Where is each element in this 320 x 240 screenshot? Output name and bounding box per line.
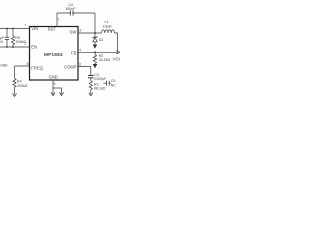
svg-text:L1: L1 — [105, 20, 109, 24]
svg-text:FREQ: FREQ — [31, 66, 43, 71]
resistor R2 — [93, 52, 96, 64]
svg-text:8: 8 — [27, 62, 29, 66]
svg-text:SW: SW — [70, 29, 77, 34]
inductor L1 — [102, 30, 115, 33]
svg-text:2200pF: 2200pF — [94, 77, 107, 81]
wire GND pin — [52, 80, 54, 94]
capacitor C3 — [88, 76, 94, 81]
wire COMP — [78, 67, 91, 76]
svg-text:100kΩ: 100kΩ — [15, 40, 26, 44]
svg-text:VOUT: VOUT — [113, 57, 120, 62]
node R5-VIN junction — [12, 28, 14, 30]
svg-text:D1: D1 — [99, 38, 104, 42]
svg-text:EN: EN — [31, 45, 37, 50]
svg-text:50V: 50V — [0, 40, 4, 44]
svg-text:100nF: 100nF — [65, 7, 76, 11]
svg-text:7: 7 — [24, 23, 26, 27]
resistor R5 — [11, 29, 14, 48]
svg-text:VIN: VIN — [31, 26, 38, 31]
svg-text:10µH: 10µH — [103, 25, 112, 29]
ground (R4) — [13, 93, 17, 96]
wire VIN rail — [0, 28, 30, 30]
ground (D1) — [93, 45, 96, 48]
svg-text:BST: BST — [48, 26, 57, 31]
svg-text:GND: GND — [0, 63, 8, 67]
node SW junction — [94, 32, 96, 34]
ground (R2) — [93, 64, 96, 67]
svg-text:6: 6 — [79, 62, 81, 66]
wire BST cap to SW node — [94, 13, 96, 33]
wire FREQ — [15, 66, 30, 79]
ground (IC GND b) — [60, 92, 64, 95]
wire BST — [57, 13, 70, 27]
node FB junction — [94, 51, 96, 53]
svg-text:68.1kΩ: 68.1kΩ — [94, 87, 106, 91]
diode D1 — [93, 33, 97, 45]
node VOUT arrow — [116, 51, 119, 54]
resistor R4 — [13, 79, 16, 95]
svg-text:1: 1 — [58, 18, 60, 22]
svg-text:200kΩ: 200kΩ — [17, 84, 28, 88]
svg-text:COMP: COMP — [64, 65, 77, 70]
capacitor C5 — [103, 81, 111, 86]
node C1-VIN junction — [6, 28, 8, 30]
svg-text:4: 4 — [79, 48, 81, 52]
svg-text:3: 3 — [79, 29, 81, 33]
svg-text:GND: GND — [49, 74, 58, 79]
svg-text:5: 5 — [54, 82, 56, 86]
svg-text:NC: NC — [111, 83, 117, 87]
node C1-EN junction — [6, 46, 8, 48]
wire FB / VOUT — [78, 51, 118, 53]
svg-text:43.2kΩ: 43.2kΩ — [99, 58, 111, 62]
capacitor C1 — [5, 29, 9, 48]
wire SW — [78, 32, 102, 34]
svg-text:FB: FB — [71, 50, 77, 55]
svg-text:R4: R4 — [17, 80, 22, 84]
node R5-EN junction — [12, 46, 14, 48]
IC U1 MP1584 — [30, 27, 79, 81]
resistor R3 — [89, 81, 92, 94]
capacitor C4 — [70, 11, 95, 16]
ground (R3) — [89, 93, 93, 96]
svg-text:MP1584: MP1584 — [44, 52, 63, 57]
wire EN rail — [0, 46, 30, 48]
wire L1 to VOUT — [114, 33, 117, 52]
ground (IC GND a) — [51, 92, 55, 95]
